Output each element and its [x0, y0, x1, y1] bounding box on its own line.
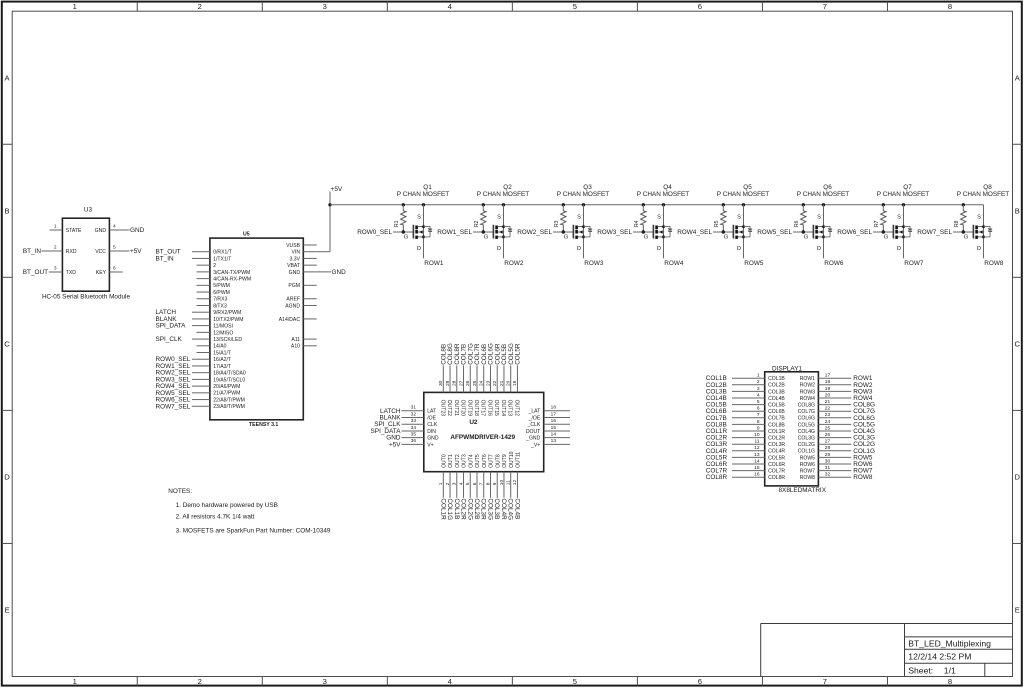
- svg-text:Q7: Q7: [903, 184, 912, 191]
- svg-text:ROW8: ROW8: [984, 260, 1004, 267]
- svg-text:OUT9: OUT9: [502, 454, 508, 468]
- svg-text:2. All resistors 4.7K 1/4 watt: 2. All resistors 4.7K 1/4 watt: [176, 514, 255, 521]
- svg-text:32: 32: [825, 472, 831, 478]
- svg-text:1: 1: [438, 482, 444, 485]
- svg-text:AGND: AGND: [285, 303, 300, 309]
- svg-text:COL2R: COL2R: [460, 498, 467, 520]
- svg-text:9: 9: [757, 425, 760, 431]
- svg-text:4: 4: [448, 2, 452, 11]
- svg-text:6: 6: [698, 2, 702, 11]
- svg-text:_CLK: _CLK: [527, 422, 541, 428]
- svg-text:SPI_CLK: SPI_CLK: [156, 336, 183, 343]
- svg-text:COL2B: COL2B: [768, 383, 785, 389]
- svg-text:COL3R: COL3R: [768, 442, 785, 448]
- svg-text:5: 5: [573, 677, 577, 686]
- svg-text:A11: A11: [291, 337, 300, 343]
- svg-text:COL4G: COL4G: [798, 429, 815, 435]
- svg-text:AFPWMDRIVER-1429: AFPWMDRIVER-1429: [450, 434, 515, 441]
- svg-text:OUT22: OUT22: [446, 400, 452, 417]
- svg-text:COL1B: COL1B: [768, 376, 785, 382]
- svg-text:GND: GND: [427, 436, 439, 442]
- svg-text:COL8R: COL8R: [768, 475, 785, 481]
- svg-text:Q3: Q3: [583, 184, 592, 191]
- svg-text:34: 34: [411, 425, 417, 431]
- svg-text:OUT8: OUT8: [495, 454, 501, 468]
- svg-text:3: 3: [452, 482, 458, 485]
- svg-text:P CHAN MOSFET: P CHAN MOSFET: [397, 191, 450, 198]
- svg-text:DOUT: DOUT: [526, 429, 540, 435]
- svg-text:OUT0: OUT0: [442, 454, 448, 468]
- svg-text:COL7R: COL7R: [768, 469, 785, 475]
- svg-text:7: 7: [823, 677, 827, 686]
- svg-text:_GND: _GND: [525, 436, 540, 442]
- svg-text:4/CAN-RX-PWM: 4/CAN-RX-PWM: [213, 277, 251, 283]
- svg-text:8: 8: [485, 482, 491, 485]
- svg-text:COL8R: COL8R: [706, 474, 728, 481]
- svg-text:OUT18: OUT18: [473, 400, 479, 417]
- svg-text:OUT1: OUT1: [448, 454, 454, 468]
- svg-text:12: 12: [512, 480, 518, 486]
- svg-text:COL7G: COL7G: [798, 409, 815, 415]
- svg-text:S: S: [497, 215, 501, 221]
- svg-text:ROW5: ROW5: [800, 455, 815, 461]
- svg-text:ROW4: ROW4: [664, 260, 684, 267]
- svg-text:22: 22: [492, 380, 498, 386]
- svg-text:23: 23: [825, 412, 831, 418]
- svg-text:9/RX2/PWM: 9/RX2/PWM: [213, 310, 241, 316]
- svg-text:COL2R: COL2R: [768, 436, 785, 442]
- svg-text:27: 27: [825, 439, 831, 445]
- svg-text:ROW8: ROW8: [800, 475, 815, 481]
- svg-text:2: 2: [198, 677, 202, 686]
- svg-text:GND: GND: [332, 269, 347, 276]
- svg-text:E: E: [4, 606, 9, 615]
- svg-text:E: E: [1015, 606, 1020, 615]
- svg-text:BT_LED_Multiplexing: BT_LED_Multiplexing: [908, 638, 991, 648]
- svg-text:ROW7_SEL: ROW7_SEL: [917, 229, 952, 236]
- svg-text:D: D: [657, 246, 661, 252]
- svg-text:12/2/14 2:52 PM: 12/2/14 2:52 PM: [908, 652, 971, 662]
- svg-text:S: S: [817, 215, 821, 221]
- svg-text:Q1: Q1: [423, 184, 432, 191]
- svg-text:R4: R4: [634, 220, 640, 227]
- svg-text:14: 14: [754, 458, 760, 464]
- svg-text:COL3B: COL3B: [493, 498, 500, 519]
- svg-text:C: C: [1015, 339, 1021, 348]
- svg-text:1: 1: [54, 224, 57, 230]
- svg-text:7: 7: [757, 412, 760, 418]
- svg-text:ROW1_SEL: ROW1_SEL: [437, 229, 472, 236]
- svg-text:G: G: [564, 235, 569, 241]
- svg-text:26: 26: [825, 432, 831, 438]
- svg-text:3.3V: 3.3V: [290, 256, 301, 262]
- svg-text:R6: R6: [794, 220, 800, 227]
- svg-text:+5V: +5V: [331, 186, 343, 193]
- svg-text:4: 4: [757, 392, 760, 398]
- svg-text:25: 25: [472, 380, 478, 386]
- svg-text:ROW8: ROW8: [853, 474, 873, 481]
- svg-text:35: 35: [411, 432, 417, 438]
- svg-text:1: 1: [757, 373, 760, 379]
- svg-text:12: 12: [754, 445, 760, 451]
- svg-text:D: D: [737, 246, 741, 252]
- svg-text:OUT23: OUT23: [439, 400, 445, 417]
- svg-text:2: 2: [757, 379, 760, 385]
- svg-text:_LAT: _LAT: [528, 409, 541, 415]
- svg-text:D: D: [817, 246, 821, 252]
- svg-text:COL4B: COL4B: [768, 396, 785, 402]
- svg-text:_V+: _V+: [530, 442, 540, 448]
- svg-text:DISPLAY1: DISPLAY1: [772, 366, 803, 373]
- svg-text:ROW1: ROW1: [424, 260, 444, 267]
- svg-text:G: G: [724, 235, 729, 241]
- svg-text:BT_IN: BT_IN: [156, 255, 174, 262]
- svg-text:10: 10: [499, 480, 505, 486]
- svg-text:18/A4/T/SDA0: 18/A4/T/SDA0: [213, 371, 246, 377]
- svg-text:5: 5: [465, 482, 471, 485]
- svg-text:COL6G: COL6G: [798, 416, 815, 422]
- svg-text:B: B: [4, 206, 9, 215]
- svg-text:27: 27: [458, 380, 464, 386]
- svg-text:8: 8: [948, 2, 952, 11]
- svg-text:8: 8: [948, 677, 952, 686]
- svg-text:D: D: [417, 246, 421, 252]
- svg-text:OUT15: OUT15: [493, 400, 499, 417]
- svg-text:3: 3: [323, 677, 327, 686]
- svg-text:17: 17: [551, 411, 557, 417]
- svg-text:COL5B: COL5B: [768, 403, 785, 409]
- svg-text:COL4G: COL4G: [507, 498, 514, 520]
- svg-text:R3: R3: [554, 220, 560, 227]
- svg-text:R1: R1: [394, 220, 400, 227]
- svg-text:31: 31: [411, 405, 417, 411]
- svg-text:RXD: RXD: [66, 249, 77, 255]
- svg-text:D: D: [4, 473, 10, 482]
- svg-text:PGM: PGM: [288, 283, 300, 289]
- svg-text:/OE: /OE: [427, 415, 436, 421]
- svg-text:ROW5: ROW5: [744, 260, 764, 267]
- svg-text:11/MOSI: 11/MOSI: [213, 324, 233, 330]
- svg-text:23: 23: [485, 380, 491, 386]
- svg-text:OUT3: OUT3: [462, 454, 468, 468]
- svg-text:10/TX2/PWM: 10/TX2/PWM: [213, 317, 243, 323]
- svg-text:5: 5: [573, 2, 577, 11]
- svg-text:13/SCK/LED: 13/SCK/LED: [213, 337, 242, 343]
- svg-text:6: 6: [698, 677, 702, 686]
- svg-text:6: 6: [113, 266, 116, 272]
- svg-text:8/TX3: 8/TX3: [213, 303, 227, 309]
- svg-text:23/A9/T/PWM: 23/A9/T/PWM: [213, 404, 245, 410]
- svg-text:6: 6: [757, 406, 760, 412]
- svg-text:S: S: [737, 215, 741, 221]
- svg-text:3. MOSFETS are SparkFun Part N: 3. MOSFETS are SparkFun Part Number: COM…: [176, 527, 331, 534]
- svg-text:OUT4: OUT4: [469, 454, 475, 468]
- svg-text:OUT6: OUT6: [482, 454, 488, 468]
- svg-text:VIN: VIN: [292, 250, 301, 256]
- svg-text:NOTES:: NOTES:: [168, 488, 192, 495]
- svg-text:BT_OUT: BT_OUT: [23, 269, 48, 276]
- svg-text:33: 33: [411, 418, 417, 424]
- svg-text:U5: U5: [243, 232, 250, 238]
- svg-text:15/A1/T: 15/A1/T: [213, 350, 231, 356]
- svg-text:14: 14: [551, 432, 557, 438]
- svg-text:R7: R7: [874, 220, 880, 227]
- svg-text:A14/DAC: A14/DAC: [279, 317, 301, 323]
- svg-text:G: G: [404, 235, 409, 241]
- svg-text:14/A0: 14/A0: [213, 344, 226, 350]
- svg-text:24: 24: [479, 380, 485, 386]
- svg-text:ROW3_SEL: ROW3_SEL: [597, 229, 632, 236]
- svg-text:KEY: KEY: [96, 270, 107, 276]
- svg-text:ROW3: ROW3: [800, 389, 815, 395]
- svg-text:8: 8: [757, 419, 760, 425]
- svg-text:13: 13: [754, 452, 760, 458]
- svg-text:19: 19: [512, 380, 518, 386]
- svg-text:OUT19: OUT19: [466, 400, 472, 417]
- svg-text:ROW6: ROW6: [800, 462, 815, 468]
- svg-text:P CHAN MOSFET: P CHAN MOSFET: [797, 191, 850, 198]
- svg-text:P CHAN MOSFET: P CHAN MOSFET: [557, 191, 610, 198]
- svg-text:17/A3/T: 17/A3/T: [213, 364, 231, 370]
- svg-text:GND: GND: [130, 227, 145, 234]
- svg-text:R2: R2: [474, 220, 480, 227]
- svg-text:OUT11: OUT11: [516, 452, 522, 468]
- svg-text:OUT16: OUT16: [487, 400, 493, 417]
- svg-text:7: 7: [479, 482, 485, 485]
- svg-text:R5: R5: [714, 220, 720, 227]
- svg-text:S: S: [897, 215, 901, 221]
- svg-text:OUT2: OUT2: [455, 454, 461, 468]
- svg-text:COL6B: COL6B: [768, 409, 785, 415]
- svg-text:OUT17: OUT17: [480, 400, 486, 417]
- svg-text:V+: V+: [427, 442, 433, 448]
- svg-text:Q4: Q4: [663, 184, 672, 191]
- svg-text:12/MISO: 12/MISO: [213, 330, 233, 336]
- svg-text:4: 4: [458, 482, 464, 485]
- svg-text:3: 3: [323, 2, 327, 11]
- svg-text:COL2G: COL2G: [466, 498, 473, 520]
- svg-text:21: 21: [499, 380, 505, 386]
- svg-text:9: 9: [492, 482, 498, 485]
- svg-text:S: S: [977, 215, 981, 221]
- svg-text:19: 19: [825, 386, 831, 392]
- svg-text:TEENSY 3.1: TEENSY 3.1: [249, 422, 278, 428]
- svg-text:G: G: [964, 235, 969, 241]
- svg-text:COL3G: COL3G: [798, 436, 815, 442]
- svg-text:30: 30: [825, 458, 831, 464]
- svg-text:16: 16: [754, 472, 760, 478]
- svg-text:D: D: [577, 246, 581, 252]
- svg-text:D: D: [977, 246, 981, 252]
- svg-text:COL1G: COL1G: [446, 498, 453, 520]
- svg-text:OUT21: OUT21: [453, 400, 459, 417]
- svg-text:BT_IN: BT_IN: [23, 248, 41, 255]
- svg-text:22: 22: [825, 406, 831, 412]
- svg-text:7: 7: [823, 2, 827, 11]
- svg-text:17: 17: [825, 373, 831, 379]
- svg-text:G: G: [644, 235, 649, 241]
- svg-text:ROW6: ROW6: [824, 260, 844, 267]
- svg-text:VUSB: VUSB: [286, 243, 300, 249]
- svg-text:STATE: STATE: [66, 228, 82, 234]
- svg-text:+5V: +5V: [130, 248, 142, 255]
- svg-text:20: 20: [506, 380, 512, 386]
- svg-text:Q8: Q8: [983, 184, 992, 191]
- svg-text:G: G: [884, 235, 889, 241]
- svg-text:OUT14: OUT14: [500, 400, 506, 417]
- svg-text:P CHAN MOSFET: P CHAN MOSFET: [637, 191, 690, 198]
- svg-text:COL7B: COL7B: [768, 416, 785, 422]
- svg-text:1/TX1/T: 1/TX1/T: [213, 256, 231, 262]
- svg-text:Q5: Q5: [743, 184, 752, 191]
- svg-text:AREF: AREF: [286, 297, 300, 303]
- svg-text:D: D: [1015, 473, 1021, 482]
- svg-text:U3: U3: [84, 207, 93, 214]
- svg-text:COL2G: COL2G: [798, 442, 815, 448]
- svg-text:VCC: VCC: [95, 249, 106, 255]
- svg-text:COL1R: COL1R: [768, 429, 785, 435]
- svg-text:36: 36: [411, 438, 417, 444]
- svg-text:S: S: [577, 215, 581, 221]
- svg-text:1: 1: [73, 2, 77, 11]
- svg-text:ROW4: ROW4: [800, 396, 815, 402]
- svg-text:4: 4: [113, 224, 116, 230]
- svg-text:S: S: [657, 215, 661, 221]
- svg-text:COL3G: COL3G: [487, 498, 494, 520]
- svg-text:8X8LEDMATRIX: 8X8LEDMATRIX: [779, 487, 827, 494]
- svg-text:HC-05 Serial Bluetooth Module: HC-05 Serial Bluetooth Module: [42, 293, 131, 300]
- svg-text:Sheet:: Sheet:: [908, 665, 933, 675]
- svg-text:OUT20: OUT20: [460, 400, 466, 417]
- svg-text:29: 29: [445, 380, 451, 386]
- svg-text:COL1B: COL1B: [453, 498, 460, 519]
- svg-text:+5V: +5V: [389, 441, 401, 448]
- svg-text:ROW4_SEL: ROW4_SEL: [677, 229, 712, 236]
- svg-text:4: 4: [448, 677, 452, 686]
- svg-text:24: 24: [825, 419, 831, 425]
- svg-text:COL3R: COL3R: [480, 498, 487, 520]
- svg-text:3: 3: [757, 386, 760, 392]
- svg-text:SPI_DATA: SPI_DATA: [156, 323, 187, 330]
- svg-text:18: 18: [825, 379, 831, 385]
- svg-text:COL8B: COL8B: [768, 422, 785, 428]
- svg-text:ROW2: ROW2: [504, 260, 524, 267]
- svg-text:21: 21: [825, 399, 831, 405]
- svg-text:A10: A10: [291, 344, 300, 350]
- svg-text:CLK: CLK: [427, 422, 438, 428]
- svg-text:10: 10: [754, 432, 760, 438]
- svg-text:2: 2: [198, 2, 202, 11]
- svg-text:1: 1: [73, 677, 77, 686]
- svg-text:COL4R: COL4R: [768, 449, 785, 455]
- svg-text:ROW2_SEL: ROW2_SEL: [517, 229, 552, 236]
- svg-text:ROW0_SEL: ROW0_SEL: [357, 229, 392, 236]
- svg-text:2: 2: [54, 245, 57, 251]
- svg-text:28: 28: [825, 445, 831, 451]
- svg-text:26: 26: [465, 380, 471, 386]
- svg-text:6: 6: [472, 482, 478, 485]
- svg-text:6/PWM: 6/PWM: [213, 290, 230, 296]
- svg-text:OUT10: OUT10: [509, 451, 515, 468]
- svg-text:0/RX1/T: 0/RX1/T: [213, 250, 232, 256]
- svg-text:ROW3: ROW3: [584, 260, 604, 267]
- svg-text:COL1R: COL1R: [439, 498, 446, 520]
- svg-text:OUT5: OUT5: [475, 454, 481, 468]
- svg-text:2: 2: [445, 482, 451, 485]
- svg-text:COL6R: COL6R: [768, 462, 785, 468]
- svg-text:P CHAN MOSFET: P CHAN MOSFET: [877, 191, 930, 198]
- svg-text:5/PWM: 5/PWM: [213, 283, 230, 289]
- svg-text:ROW7: ROW7: [904, 260, 924, 267]
- svg-text:11: 11: [506, 480, 512, 485]
- svg-text:COL5R: COL5R: [515, 343, 522, 365]
- svg-text:20: 20: [825, 392, 831, 398]
- svg-text:COL5G: COL5G: [798, 422, 815, 428]
- svg-text:COL5R: COL5R: [768, 455, 785, 461]
- svg-text:3/CAN-TX/PWM: 3/CAN-TX/PWM: [213, 270, 250, 276]
- svg-text:D: D: [497, 246, 501, 252]
- svg-text:GND: GND: [289, 270, 301, 276]
- svg-text:U2: U2: [469, 419, 478, 426]
- svg-text:COL8G: COL8G: [798, 403, 815, 409]
- svg-text:TXD: TXD: [66, 270, 77, 276]
- svg-text:COL4B: COL4B: [513, 498, 520, 519]
- svg-text:COL4R: COL4R: [500, 498, 507, 520]
- svg-text:3: 3: [54, 266, 57, 272]
- svg-text:D: D: [897, 246, 901, 252]
- svg-text:5: 5: [113, 245, 116, 251]
- svg-text:GND: GND: [95, 228, 107, 234]
- svg-text:ROW7_SEL: ROW7_SEL: [156, 403, 191, 410]
- svg-text:20/A6/PWM: 20/A6/PWM: [213, 384, 240, 390]
- svg-text:16/A2/T: 16/A2/T: [213, 357, 231, 363]
- svg-text:30: 30: [438, 380, 444, 386]
- svg-text:32: 32: [411, 411, 417, 417]
- svg-text:28: 28: [452, 380, 458, 386]
- svg-text:ROW5_SEL: ROW5_SEL: [757, 229, 792, 236]
- svg-text:ROW1: ROW1: [800, 376, 815, 382]
- svg-text:B: B: [1015, 206, 1020, 215]
- svg-text:18: 18: [551, 405, 557, 411]
- svg-text:R8: R8: [954, 220, 960, 227]
- svg-text:OUT13: OUT13: [507, 400, 513, 417]
- svg-text:G: G: [804, 235, 809, 241]
- svg-text:Q2: Q2: [503, 184, 512, 191]
- svg-text:S: S: [417, 215, 421, 221]
- svg-text:OUT12: OUT12: [513, 400, 519, 417]
- svg-text:OUT7: OUT7: [489, 454, 495, 468]
- svg-text:13: 13: [551, 438, 557, 444]
- svg-text:11: 11: [755, 439, 760, 445]
- svg-text:22/A8/T/PWM: 22/A8/T/PWM: [213, 398, 245, 404]
- svg-text:15: 15: [551, 425, 557, 431]
- svg-text:COL1G: COL1G: [798, 449, 815, 455]
- svg-text:G: G: [484, 235, 489, 241]
- svg-text:21/A7/PWM: 21/A7/PWM: [213, 391, 240, 397]
- svg-text:VBAT: VBAT: [287, 263, 300, 269]
- svg-text:ROW6_SEL: ROW6_SEL: [837, 229, 872, 236]
- svg-text:31: 31: [825, 465, 831, 471]
- svg-text:C: C: [4, 339, 10, 348]
- svg-text:P CHAN MOSFET: P CHAN MOSFET: [477, 191, 530, 198]
- svg-text:COL3B: COL3B: [768, 389, 785, 395]
- svg-text:P CHAN MOSFET: P CHAN MOSFET: [957, 191, 1010, 198]
- svg-text:COL2B: COL2B: [473, 498, 480, 519]
- svg-text:15: 15: [754, 465, 760, 471]
- svg-text:7/RX3: 7/RX3: [213, 297, 227, 303]
- svg-text:P CHAN MOSFET: P CHAN MOSFET: [717, 191, 770, 198]
- svg-text:DIN: DIN: [427, 429, 436, 435]
